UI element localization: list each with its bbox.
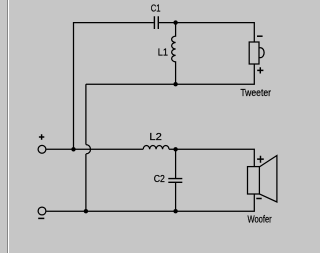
wire: C2 top lead [175,149,177,178]
woofer + polarity mark [257,156,264,163]
woofer - polarity mark [256,198,261,200]
input - label mark [38,217,44,219]
woofer body [248,167,260,194]
input terminal - circle [38,207,46,215]
inductor L2 [143,145,169,149]
wire: mid rail from + terminal to L2 [46,148,143,150]
node: bottom rail junction at vertical 2 [84,209,88,213]
wire hop over mid rail [86,145,91,154]
tweeter dome [259,48,264,58]
capacitor C1 plates [154,16,158,29]
node: C1/L1/tweeter junction [173,20,177,24]
wire: tweeter return rail y=84 into tweeter bottom [86,64,254,84]
svg-text:C2: C2 [154,174,166,185]
input + label mark [39,134,44,139]
inductor L1 [172,23,176,84]
panel groove dark line [7,0,8,253]
svg-text:L2: L2 [149,132,162,143]
svg-text:Tweeter: Tweeter [240,88,271,99]
capacitor C2 plates [168,179,182,183]
node: C2 bottom junction [173,209,177,213]
woofer cone [259,156,277,203]
wire: L2 to woofer branch, down to woofer top [169,149,254,166]
tweeter + polarity mark [257,67,263,73]
wire: C1 right lead to tweeter branch, down to tweeter top [159,23,255,42]
svg-text:L1: L1 [158,47,169,58]
tweeter U1 body [249,42,259,64]
node: L1 bottom junction [173,82,177,86]
node: + input junction [71,147,75,151]
wire: C2 bottom lead [175,183,177,211]
wire: vertical 2 lower (hop to bottom rail) [85,154,87,211]
wire: vertical 2 upper (corner to hop) [85,84,87,144]
svg-text:Woofer: Woofer [248,215,273,226]
input terminal + circle [38,145,46,153]
wire: vertical 1 + top rail to C1 left plate [74,23,154,150]
panel groove light line [8,0,9,253]
tweeter - polarity mark [257,35,263,37]
svg-text:C1: C1 [151,4,161,15]
node: L2/C2 junction [173,147,177,151]
wire: bottom rail from - terminal to woofer bottom [46,194,254,211]
